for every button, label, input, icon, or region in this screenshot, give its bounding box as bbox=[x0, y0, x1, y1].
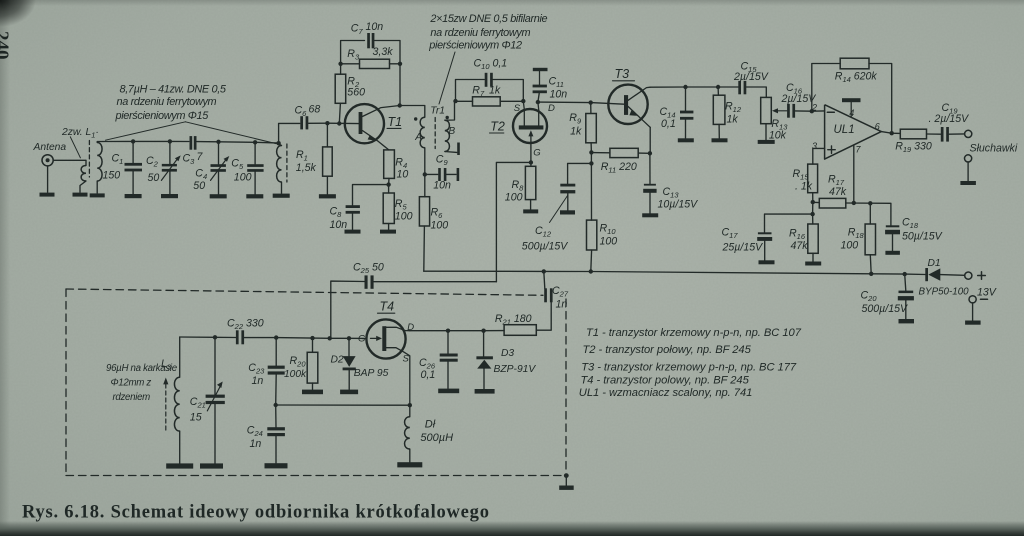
node R12 bbox=[716, 85, 720, 89]
svg-text:D: D bbox=[548, 103, 555, 114]
capacitor C7 bbox=[367, 33, 370, 48]
svg-text:100: 100 bbox=[841, 240, 859, 252]
svg-text:1k: 1k bbox=[570, 126, 582, 138]
node R11 left bbox=[589, 150, 593, 154]
svg-text:2µ/15V: 2µ/15V bbox=[733, 71, 769, 83]
capacitor C20 bbox=[905, 274, 906, 291]
resistor R18 bbox=[869, 203, 871, 224]
capacitor C18 bbox=[886, 225, 900, 227]
node R18 top bbox=[868, 201, 872, 205]
svg-text:pierścieniowym Φ12: pierścieniowym Φ12 bbox=[428, 39, 522, 51]
svg-text:500µH: 500µH bbox=[420, 432, 453, 444]
capacitor C12 bbox=[568, 163, 592, 183]
capacitor C21 bbox=[214, 337, 216, 394]
wire D to T3 base bbox=[538, 102, 624, 104]
capacitor C16 bbox=[787, 104, 790, 118]
svg-text:T1: T1 bbox=[388, 115, 403, 129]
svg-text:100: 100 bbox=[234, 172, 252, 184]
svg-text:68: 68 bbox=[309, 104, 321, 116]
ground (L1 secondary) bbox=[90, 193, 105, 197]
wire top bus right bbox=[197, 142, 282, 146]
ground (C8) bbox=[345, 230, 361, 234]
terminal out2 bbox=[965, 155, 972, 162]
node A bottom bbox=[423, 172, 427, 176]
wire tank bus2 bbox=[244, 337, 366, 340]
node C1 bbox=[131, 139, 135, 143]
wire T2 gate down bbox=[530, 143, 532, 162]
svg-text:A: A bbox=[414, 132, 422, 143]
ground (C14) bbox=[678, 138, 694, 142]
svg-text:D1: D1 bbox=[928, 258, 941, 269]
svg-text:. 1k: . 1k bbox=[795, 181, 813, 193]
core line Tr L1 bbox=[88, 141, 90, 178]
wire to C8 bbox=[353, 185, 389, 206]
node R17 left bbox=[811, 200, 815, 204]
node R11 right bbox=[648, 151, 652, 155]
ground (R12) bbox=[712, 138, 728, 142]
svg-text:100: 100 bbox=[600, 236, 618, 248]
svg-text:T4: T4 bbox=[380, 300, 395, 314]
resistor R6 bbox=[419, 197, 429, 226]
capacitor C2 bbox=[169, 141, 171, 163]
svg-text:10k: 10k bbox=[769, 130, 787, 142]
resistor R5 bbox=[388, 185, 390, 193]
svg-text:C22 330: C22 330 bbox=[227, 318, 264, 332]
ground (minus) bbox=[965, 321, 981, 325]
ground (C24) bbox=[265, 463, 288, 468]
resistor R2 bbox=[340, 64, 342, 74]
diode D2 bbox=[348, 338, 350, 356]
node T2 D bbox=[536, 100, 540, 104]
transistor T1 bbox=[345, 104, 384, 143]
capacitor C9 bbox=[425, 173, 438, 175]
ground (box corner) bbox=[559, 486, 574, 490]
svg-text:Antena: Antena bbox=[33, 142, 67, 153]
ground (phones) bbox=[960, 181, 976, 185]
capacitor C17 bbox=[758, 232, 772, 234]
node D2 top bbox=[347, 336, 351, 340]
svg-text:rdzeniem: rdzeniem bbox=[113, 392, 151, 403]
svg-text:150: 150 bbox=[103, 170, 121, 182]
node C21 top bbox=[213, 335, 217, 339]
svg-text:Słuchawki: Słuchawki bbox=[970, 143, 1018, 155]
svg-text:50µ/15V: 50µ/15V bbox=[902, 231, 943, 243]
node R18 rail bbox=[869, 272, 873, 276]
svg-text:6: 6 bbox=[875, 122, 880, 132]
inductor input coil bbox=[277, 146, 282, 183]
svg-text:. 2µ/15V: . 2µ/15V bbox=[929, 113, 970, 125]
capacitor C6 bbox=[300, 116, 303, 129]
inductor L1 primary bbox=[81, 166, 86, 182]
wire power rail bbox=[424, 271, 926, 274]
ground (C4) bbox=[210, 194, 227, 198]
capacitor C11 bbox=[538, 93, 539, 102]
op-amp UL1 bbox=[825, 105, 882, 159]
svg-text:1n: 1n bbox=[250, 438, 262, 450]
wire R7C10 left bbox=[456, 80, 485, 102]
node R3 left bbox=[338, 62, 342, 66]
svg-text:C10 0,1: C10 0,1 bbox=[474, 58, 508, 72]
resistor R7 bbox=[456, 100, 473, 102]
node C12 branch bbox=[589, 161, 593, 165]
core Tr1 bbox=[434, 118, 436, 149]
node C14 bbox=[683, 85, 687, 89]
dashed box left bbox=[65, 289, 67, 476]
wire pin3 to R15 bbox=[813, 148, 825, 164]
node C5 bbox=[253, 140, 257, 144]
inductor L1 secondary bbox=[97, 143, 102, 181]
svg-text:10n: 10n bbox=[433, 180, 451, 192]
svg-text:R19 330: R19 330 bbox=[895, 141, 932, 155]
svg-text:R11 220: R11 220 bbox=[601, 161, 637, 175]
node out bbox=[890, 131, 894, 135]
wire B bottom bbox=[445, 151, 457, 154]
node R2 bottom bbox=[337, 121, 341, 125]
ground (C20) bbox=[899, 319, 915, 323]
svg-text:Dł: Dł bbox=[425, 419, 436, 431]
resistor R8 bbox=[530, 162, 532, 166]
svg-text:100k: 100k bbox=[284, 369, 307, 380]
svg-text:1n: 1n bbox=[556, 299, 568, 311]
capacitor C26 bbox=[447, 331, 449, 354]
node R3 right bbox=[398, 62, 402, 66]
svg-text:3,3k: 3,3k bbox=[373, 46, 394, 58]
wire tank bus bbox=[180, 336, 236, 339]
capacitor C15 bbox=[738, 81, 741, 94]
wire C10 right bbox=[493, 80, 523, 102]
capacitor C4 bbox=[218, 142, 220, 164]
svg-text:100: 100 bbox=[505, 192, 523, 204]
antenna jack bbox=[42, 155, 53, 166]
arrow C4 bbox=[211, 159, 227, 181]
wire L1 primary to ground bbox=[80, 181, 86, 192]
svg-text:UL1: UL1 bbox=[834, 124, 855, 136]
ground (L1 primary) bbox=[73, 193, 88, 197]
inductor Dl choke bbox=[409, 405, 411, 417]
svg-text:10n: 10n bbox=[366, 21, 384, 33]
wire antenna to L1 primary bbox=[53, 160, 86, 165]
ground (C5) bbox=[246, 194, 263, 198]
resistor R11 bbox=[591, 152, 610, 154]
svg-text:10: 10 bbox=[397, 169, 409, 181]
svg-text:BYP50-100: BYP50-100 bbox=[919, 287, 970, 298]
svg-text:96µH na karkasie: 96µH na karkasie bbox=[106, 363, 178, 374]
pin7 wire bbox=[853, 145, 855, 203]
ground (R13) bbox=[758, 140, 775, 144]
svg-text:47k: 47k bbox=[829, 186, 847, 198]
wire L1 secondary to ground bbox=[96, 181, 98, 193]
wire collector riser bbox=[399, 64, 401, 106]
node box corner bbox=[564, 473, 569, 478]
svg-text:T2: T2 bbox=[490, 120, 505, 134]
node C25 osc bbox=[328, 336, 332, 340]
node mid bus right bbox=[408, 403, 412, 407]
svg-text:T4 - tranzystor polowy, np. BF: T4 - tranzystor polowy, np. BF 245 bbox=[581, 375, 750, 387]
resistor R15 bbox=[808, 164, 818, 193]
svg-text:1k: 1k bbox=[727, 114, 739, 126]
ground (input coil) bbox=[273, 194, 290, 198]
wire out bbox=[881, 132, 900, 134]
svg-text:R21 180: R21 180 bbox=[495, 313, 532, 327]
svg-text:B: B bbox=[449, 126, 456, 137]
resistor R14 loop bbox=[869, 64, 892, 134]
wire R15-R16 bbox=[812, 202, 814, 224]
svg-text:10n: 10n bbox=[550, 89, 568, 101]
svg-text:BAP 95: BAP 95 bbox=[354, 368, 389, 379]
svg-text:100: 100 bbox=[395, 211, 413, 223]
terminal minus bbox=[969, 296, 976, 303]
node coil bbox=[276, 141, 280, 145]
ground (Dl) bbox=[397, 462, 422, 467]
svg-text:25µ/15V: 25µ/15V bbox=[722, 242, 764, 254]
capacitor C10 bbox=[485, 73, 488, 87]
wire B top bbox=[445, 101, 455, 120]
wire drain bus bbox=[410, 330, 504, 332]
svg-text:1k: 1k bbox=[489, 85, 501, 97]
ground (C13) bbox=[642, 213, 658, 217]
wire C17 bbox=[765, 214, 813, 232]
svg-text:2×15zw DNE 0,5 bifilarnie: 2×15zw DNE 0,5 bifilarnie bbox=[429, 13, 547, 25]
resistor R3 bbox=[341, 63, 360, 65]
resistor R17 bbox=[813, 201, 820, 203]
callout roof lines bbox=[105, 122, 185, 140]
capacitor C14 bbox=[685, 87, 687, 111]
phase dot A bbox=[414, 117, 417, 120]
capacitor C19 bbox=[941, 127, 944, 142]
ground (R16) bbox=[805, 262, 821, 266]
callout line Tr1 bbox=[439, 52, 455, 104]
node R20 top bbox=[310, 336, 314, 340]
svg-text:240: 240 bbox=[0, 31, 12, 60]
ground (C18) bbox=[885, 251, 900, 255]
capacitor C24 bbox=[275, 405, 277, 427]
node C26 top bbox=[446, 329, 450, 333]
terminal out bbox=[965, 130, 972, 137]
transistor T3 bbox=[608, 85, 647, 124]
wire C7 loop right bbox=[375, 41, 400, 64]
ground (L3) bbox=[166, 463, 193, 468]
diode D3 bbox=[483, 331, 485, 357]
node R10 rail bbox=[589, 269, 593, 273]
svg-text:1,5k: 1,5k bbox=[296, 162, 317, 174]
svg-text:na rdzeniu ferrytowym: na rdzeniu ferrytowym bbox=[117, 96, 217, 108]
core arrow L3 bbox=[165, 384, 167, 431]
svg-text:G: G bbox=[358, 334, 365, 345]
svg-text:G: G bbox=[533, 147, 540, 158]
svg-text:S: S bbox=[514, 103, 521, 114]
ground (C2) bbox=[161, 194, 178, 198]
resistor R1 bbox=[326, 123, 328, 147]
ground (C26) bbox=[438, 389, 459, 394]
wire coil to C6 bbox=[279, 123, 300, 143]
wire collector to Tr1 bbox=[400, 106, 425, 118]
potentiometer R13 bbox=[761, 97, 772, 123]
svg-text:500µ/15V: 500µ/15V bbox=[862, 303, 909, 315]
node R4 bottom bbox=[386, 182, 390, 186]
wire C7 loop left bbox=[341, 41, 365, 64]
wire L1 secondary top bbox=[97, 142, 103, 143]
svg-text:T3: T3 bbox=[615, 67, 630, 81]
pin3 plus bbox=[828, 149, 835, 151]
node mid bus left bbox=[274, 403, 278, 407]
svg-text:R14 620k: R14 620k bbox=[835, 71, 878, 85]
svg-text:T1 - tranzystor krzemowy n-p-n: T1 - tranzystor krzemowy n-p-n, np. BC 1… bbox=[586, 327, 802, 339]
node D3 top bbox=[481, 329, 485, 333]
ground (D3) bbox=[475, 389, 495, 394]
pin2 minus bbox=[827, 111, 834, 113]
svg-text:10µ/15V: 10µ/15V bbox=[658, 199, 699, 211]
capacitor C25 bbox=[374, 281, 497, 283]
callout line C12 bbox=[550, 196, 568, 223]
capacitor C27 bbox=[544, 271, 545, 288]
resistor R4 bbox=[384, 150, 395, 179]
ground (R20) bbox=[302, 390, 323, 395]
phase dot B bbox=[446, 116, 449, 119]
dashed box bottom bbox=[66, 475, 566, 477]
node C27 rail bbox=[542, 269, 546, 273]
svg-text:UL1 - wzmacniacz scalony, np.: UL1 - wzmacniacz scalony, np. 741 bbox=[579, 387, 753, 399]
core line input coil bbox=[286, 144, 288, 182]
ground (antenna) bbox=[40, 193, 55, 197]
wire A to R6 bbox=[424, 148, 426, 197]
transistor T4 bbox=[366, 319, 405, 358]
capacitor C1 bbox=[132, 141, 134, 163]
svg-text:50: 50 bbox=[148, 172, 160, 184]
node C4 bbox=[216, 140, 220, 144]
capacitor C13 bbox=[649, 153, 651, 184]
arrow C2 bbox=[161, 158, 178, 181]
svg-text:T3 - tranzystor krzemowy p-n-p: T3 - tranzystor krzemowy p-n-p, np. BC 1… bbox=[581, 362, 797, 374]
ground (R1) bbox=[319, 194, 336, 198]
svg-text:1n: 1n bbox=[252, 375, 264, 387]
diode D1 bbox=[925, 268, 928, 281]
svg-text:0,1: 0,1 bbox=[421, 369, 436, 381]
pin4 bar bbox=[850, 102, 852, 117]
svg-text:500µ/15V: 500µ/15V bbox=[522, 241, 569, 253]
svg-text:Rys. 6.18. Schemat ideowy odbi: Rys. 6.18. Schemat ideowy odbiornika kró… bbox=[22, 503, 490, 523]
svg-text:10n: 10n bbox=[330, 219, 348, 231]
svg-text:na rdzeniu ferrytowym: na rdzeniu ferrytowym bbox=[430, 27, 530, 39]
svg-text:BZP-91V: BZP-91V bbox=[494, 364, 537, 375]
ground (D2) bbox=[340, 390, 358, 395]
svg-text:2µ/15V: 2µ/15V bbox=[781, 93, 817, 105]
resistor R9 bbox=[590, 103, 592, 114]
capacitor C23 bbox=[275, 338, 277, 366]
svg-text:47k: 47k bbox=[791, 240, 809, 252]
ground (R5) bbox=[380, 230, 396, 234]
node T1 collector bbox=[398, 103, 402, 107]
node R7 left bbox=[453, 99, 457, 103]
svg-text:15: 15 bbox=[190, 412, 202, 424]
svg-text:8,7µH – 41zw. DNE 0,5: 8,7µH – 41zw. DNE 0,5 bbox=[120, 84, 227, 96]
svg-text:Tr1: Tr1 bbox=[430, 106, 445, 117]
ground (C17) bbox=[759, 260, 775, 264]
node C23 top bbox=[274, 335, 278, 339]
wire R9 to R10 bbox=[590, 152, 592, 220]
node C2 bbox=[168, 139, 172, 143]
dashed box top bbox=[66, 289, 543, 295]
terminal bar B bbox=[457, 143, 460, 156]
inductor L3 bbox=[179, 337, 181, 377]
svg-text:T2 - tranzystor połowy, np. BF: T2 - tranzystor połowy, np. BF 245 bbox=[583, 344, 752, 356]
svg-text:C25 50: C25 50 bbox=[353, 262, 384, 276]
node T2 S bbox=[521, 99, 525, 103]
svg-text:Φ12mm z: Φ12mm z bbox=[111, 378, 152, 389]
svg-text:D3: D3 bbox=[501, 348, 514, 359]
wire T3 out bus bbox=[650, 86, 738, 88]
resistor R20 bbox=[312, 338, 314, 352]
ground (C1) bbox=[125, 194, 142, 198]
ground (C21) bbox=[200, 463, 223, 468]
node C20 rail bbox=[903, 272, 907, 276]
node pin2 bbox=[810, 109, 814, 113]
svg-text:560: 560 bbox=[347, 87, 365, 99]
svg-text:50: 50 bbox=[193, 180, 205, 192]
capacitor C8 bbox=[346, 205, 360, 208]
node R9 top bbox=[589, 100, 593, 104]
terminal plus bbox=[965, 272, 972, 279]
resistor R19 bbox=[900, 129, 926, 139]
ground (C12) bbox=[560, 210, 575, 214]
transformer Tr1 winding A bbox=[420, 117, 425, 148]
resistor R12 bbox=[717, 87, 719, 95]
resistor R21 bbox=[504, 325, 536, 336]
node R1 top bbox=[325, 121, 329, 125]
wire C6 to T1 base bbox=[309, 122, 359, 124]
arrow C21 bbox=[207, 385, 221, 411]
svg-text:13V: 13V bbox=[977, 287, 997, 299]
dashed box right bbox=[565, 299, 567, 475]
node C17 branch bbox=[810, 212, 814, 216]
svg-text:0,1: 0,1 bbox=[661, 118, 676, 130]
node pin7 bottom bbox=[852, 201, 856, 205]
wire C15 to R13 bbox=[747, 87, 767, 97]
wiper arrow R13 bbox=[777, 110, 787, 112]
wire gate to C25 riser bbox=[496, 162, 531, 281]
resistor R10 bbox=[587, 220, 597, 250]
callout line 2zw bbox=[70, 137, 80, 158]
capacitor C5 bbox=[254, 142, 256, 164]
resistor R16 bbox=[808, 224, 818, 253]
svg-text:pierścieniowym Φ15: pierścieniowym Φ15 bbox=[115, 110, 210, 122]
capacitor C22 bbox=[236, 330, 239, 344]
capacitor C3 bbox=[190, 136, 193, 150]
svg-text:S: S bbox=[403, 354, 410, 365]
svg-text:100: 100 bbox=[431, 220, 449, 232]
wire mid bus bbox=[276, 404, 410, 406]
transistor T2 bbox=[513, 109, 547, 143]
wire C16 to pin2 bbox=[795, 110, 824, 112]
transformer Tr1 winding B bbox=[445, 120, 450, 151]
svg-text:D2: D2 bbox=[331, 355, 344, 366]
wire top bus bbox=[103, 140, 189, 142]
wire T3 emitter down bbox=[649, 127, 651, 153]
node gate bbox=[529, 160, 533, 164]
ground (R8) bbox=[523, 209, 538, 213]
